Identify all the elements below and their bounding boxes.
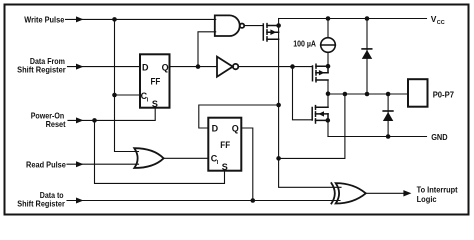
wire Q branch up to NAND input	[198, 32, 216, 67]
svg-text:Q: Q	[232, 124, 239, 134]
wire POR down to FF2 S	[95, 120, 225, 183]
or gate U3	[134, 148, 163, 168]
svg-text:CC: CC	[437, 20, 445, 26]
label To Interrupt Logic	[417, 185, 458, 205]
node junction diode2 tap	[386, 92, 391, 97]
node junction Q2 drain/bulk	[326, 64, 331, 69]
wire data-to line to XOR input	[67, 200, 340, 202]
wire XOR output to interrupt	[366, 192, 405, 194]
svg-text:D: D	[142, 62, 149, 72]
wire write vertical to OR input	[115, 19, 139, 151]
wire to FF2 D	[199, 105, 279, 128]
wire FF2 Q down to data line	[241, 128, 253, 201]
svg-text:P0-P7: P0-P7	[433, 89, 455, 99]
power rail Vcc	[279, 18, 427, 20]
wire read pulse to OR input	[67, 163, 139, 165]
wire port node line to P0-P7	[328, 93, 408, 95]
svg-text:Write Pulse: Write Pulse	[24, 14, 64, 24]
svg-text:Q: Q	[162, 62, 169, 72]
arrow data from	[76, 64, 84, 70]
label Data From Shift Register	[17, 56, 66, 75]
node junction current source tap	[326, 16, 331, 21]
node junction diode tap	[365, 16, 370, 21]
wire Q3 source to GND rail	[327, 120, 329, 136]
diode D2 (to GND)	[383, 94, 393, 137]
power rail GND	[328, 136, 427, 138]
xor gate U4	[331, 183, 365, 203]
wire Q1 source feedback vertical	[279, 26, 341, 188]
node junction Q1 drain/bulk	[276, 23, 281, 28]
label Power-On Reset	[31, 111, 66, 129]
node junction diode2 GND	[386, 134, 391, 139]
node junction feedback branch	[276, 156, 281, 161]
transistor Q3 (lower, pull-down)	[312, 106, 328, 123]
wire branch down to Q3 gate	[293, 67, 313, 120]
svg-text:GND: GND	[431, 132, 447, 142]
arrow to interrupt logic	[403, 190, 411, 196]
svg-text:Read Pulse: Read Pulse	[26, 160, 66, 170]
arrow data to	[76, 198, 84, 204]
flip-flop FF1	[140, 54, 170, 109]
node junction POR	[92, 118, 97, 123]
svg-text:Shift Register: Shift Register	[17, 65, 66, 75]
svg-text:S: S	[152, 99, 158, 109]
svg-text:I: I	[217, 160, 219, 166]
node junction write/clock	[112, 17, 117, 22]
node junction inverter output branch	[290, 64, 295, 69]
nand gate U1	[215, 15, 244, 36]
label 100 uA	[293, 39, 316, 48]
transistor Q2 (upper, pull-up)	[313, 64, 329, 81]
wire feedback from port node	[279, 94, 345, 158]
svg-text:100 µA: 100 µA	[293, 39, 316, 48]
label Read Pulse	[26, 160, 66, 170]
svg-text:S: S	[222, 162, 228, 172]
svg-text:FF: FF	[220, 140, 230, 150]
wire OR output to FF2 CI	[163, 157, 208, 159]
svg-text:Shift Register: Shift Register	[17, 198, 65, 208]
node junction FF2 Q on data line	[251, 198, 256, 203]
wire power-on reset to FF1 S	[68, 108, 155, 121]
arrow read pulse	[76, 161, 84, 167]
svg-text:I: I	[147, 97, 149, 103]
node junction diode1 tap	[365, 92, 370, 97]
node junction feedback tap	[343, 92, 348, 97]
wire write pulse line	[66, 18, 216, 20]
label Write Pulse	[24, 14, 64, 24]
label P0-P7	[433, 89, 455, 99]
node junction CI branch	[112, 93, 117, 98]
svg-text:D: D	[212, 124, 219, 134]
svg-text:Logic: Logic	[417, 194, 437, 204]
node junction FF1 Q branch	[196, 64, 201, 69]
flip-flop FF2	[208, 118, 241, 172]
port box P0-P7	[408, 79, 428, 107]
wire branch to FF1 CI	[115, 94, 141, 96]
svg-text:Reset: Reset	[46, 119, 66, 129]
arrow write pulse	[76, 16, 84, 22]
node junction Q3 source/bulk	[326, 118, 331, 123]
transistor Q1 (write pull-up)	[263, 24, 278, 41]
svg-text:FF: FF	[151, 76, 161, 86]
diode D1 (to Vcc)	[362, 19, 372, 95]
node junction FF2 D branch	[276, 103, 281, 108]
inverter U2	[217, 57, 238, 77]
wire inverter output to gates	[239, 66, 313, 68]
wire data-from line to FF1 D	[68, 66, 141, 68]
node junction port node	[326, 91, 331, 96]
arrow power-on reset	[76, 117, 84, 123]
label Data to Shift Register	[17, 190, 65, 208]
wire FF1 Q to inverter	[170, 66, 218, 68]
label Vcc	[431, 14, 445, 26]
current source 100uA	[321, 19, 336, 67]
svg-text:To Interrupt: To Interrupt	[417, 185, 458, 195]
wire Q1 to Vcc rail corner	[278, 19, 280, 26]
label GND	[431, 132, 447, 142]
wire Q2 source to node	[327, 80, 329, 107]
wire NAND output to Q1 gate	[244, 25, 263, 27]
